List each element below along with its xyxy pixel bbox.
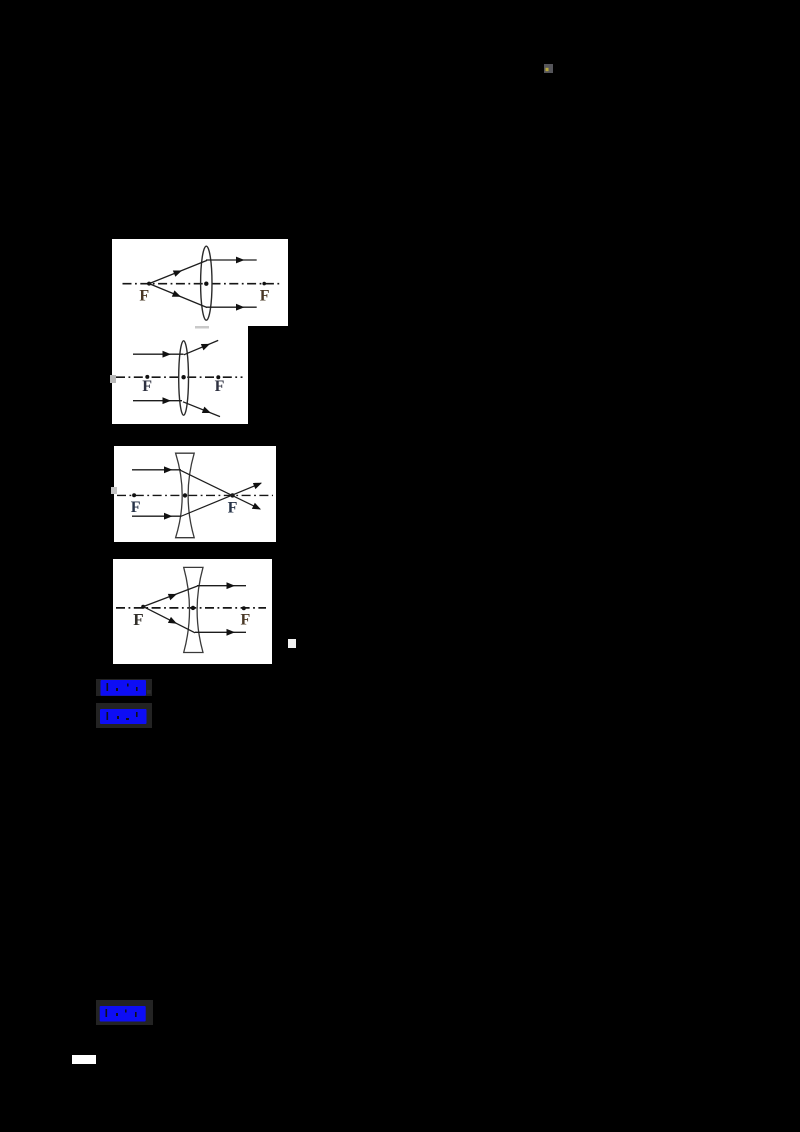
arrowhead at end of down-right ray bbox=[252, 503, 263, 513]
arrowhead outgoing bottom bbox=[202, 407, 212, 416]
arrowhead on upper incident ray bbox=[173, 267, 183, 276]
ray: exit parallel bottom bbox=[195, 631, 246, 633]
lens center dot bbox=[183, 493, 187, 497]
focal point dot left bbox=[141, 605, 145, 609]
ray: F to lens top bbox=[143, 586, 197, 607]
focal point dot left bbox=[145, 375, 149, 379]
svg-text:F: F bbox=[142, 378, 152, 395]
white panel bbox=[112, 239, 288, 326]
ray: F to lens bottom bbox=[149, 284, 207, 308]
ray: outgoing up-right bbox=[184, 340, 218, 354]
optical axis (dash-dot) bbox=[116, 376, 243, 378]
ray: exit parallel top bbox=[197, 585, 246, 587]
svg-text:F: F bbox=[133, 610, 143, 629]
answer link blob 1 bbox=[96, 679, 152, 696]
answer link blob 3 bbox=[96, 1000, 153, 1025]
white panel bbox=[113, 559, 272, 664]
gray notch at left edge of diagram 2 bbox=[110, 375, 116, 383]
arrowhead incoming bottom bbox=[163, 397, 172, 404]
smudge of lens1 bottom on top edge bbox=[195, 326, 209, 329]
svg-text:F: F bbox=[228, 500, 238, 517]
diagram 3: concave lens, parallel rays converge to F (crossing) bbox=[114, 446, 276, 542]
ray: F to lens bottom bbox=[143, 607, 195, 633]
crossing point dot right F bbox=[230, 493, 234, 497]
white panel bbox=[112, 326, 248, 424]
lens L1 (convex, ellipse) bbox=[201, 246, 212, 320]
diagram 4: concave lens, rays from F exit parallel bbox=[113, 559, 272, 664]
focal point dot right bbox=[242, 606, 246, 610]
white panel bbox=[114, 446, 276, 542]
white page-number bar bottom left bbox=[72, 1055, 96, 1064]
arrowhead incoming top bbox=[163, 351, 172, 358]
optical axis (dash-dot) bbox=[117, 494, 273, 496]
arrowhead lower incident bbox=[168, 617, 179, 627]
arrowhead on bottom exit ray bbox=[236, 304, 245, 311]
ray: outgoing down-right bbox=[183, 402, 220, 417]
ray: incoming parallel bottom bbox=[132, 515, 181, 517]
svg-text:F: F bbox=[139, 288, 149, 305]
ray: exit parallel bottom bbox=[206, 306, 257, 308]
optical axis (dash-dot) bbox=[123, 283, 283, 285]
lens center dot bbox=[204, 282, 208, 286]
ray: exit parallel top bbox=[206, 259, 257, 261]
optical axis (dash-dot) bbox=[116, 607, 266, 609]
svg-text:F: F bbox=[260, 288, 270, 305]
diagram 1: converging lens, rays from left focus F exit parallel bbox=[112, 239, 288, 326]
small white square right of diagram 4 bbox=[288, 639, 296, 648]
arrowhead at end of up-right ray bbox=[253, 480, 263, 490]
lens L2 (convex, ellipse) bbox=[179, 341, 189, 415]
focal point dot right bbox=[262, 282, 266, 286]
ray: incoming parallel top bbox=[132, 469, 181, 471]
arrowhead incoming top bbox=[164, 466, 173, 473]
focal point dot right bbox=[216, 375, 220, 379]
arrowhead top exit bbox=[227, 582, 236, 589]
lens center dot bbox=[191, 606, 195, 610]
ray: incoming parallel top bbox=[133, 353, 184, 355]
lens center dot bbox=[181, 375, 185, 379]
ray: incoming parallel bottom bbox=[133, 400, 182, 402]
focal point dot left bbox=[147, 282, 151, 286]
arrowhead on lower incident ray bbox=[172, 290, 182, 300]
arrowhead incoming bottom bbox=[164, 513, 173, 520]
svg-text:F: F bbox=[131, 499, 141, 516]
svg-text:F: F bbox=[215, 378, 225, 395]
arrowhead outgoing top bbox=[201, 341, 211, 351]
ray: transmitted up-right through F bbox=[181, 483, 262, 516]
svg-text:F: F bbox=[241, 611, 251, 628]
answer link blob 2 bbox=[96, 703, 152, 728]
lens L3 (biconcave) bbox=[176, 453, 195, 538]
diagram 2: convex lens, parallel rays diverge after lens bbox=[112, 326, 248, 424]
small dark punctuation after bbox=[147, 690, 151, 694]
ray: F to lens top bbox=[149, 260, 207, 283]
focal point dot left bbox=[132, 493, 136, 497]
arrowhead bottom exit bbox=[227, 629, 236, 636]
gray notch at left edge of diagram 3 bbox=[111, 487, 117, 494]
lens L4 (biconcave) bbox=[184, 567, 203, 652]
small image placeholder icon top right bbox=[544, 64, 553, 73]
arrowhead upper incident bbox=[168, 591, 178, 600]
ray: transmitted down-right through F bbox=[181, 470, 261, 509]
arrowhead on top exit ray bbox=[236, 257, 245, 264]
